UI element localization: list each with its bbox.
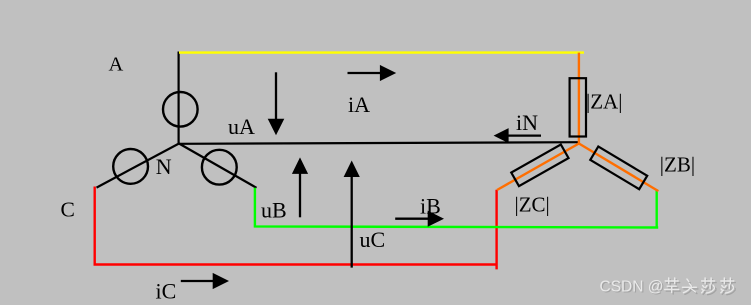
svg-text:|ZA|: |ZA| [586,90,622,114]
wire: orange diagonal to ZC [497,144,579,191]
svg-text:A: A [109,54,124,76]
arrow iB (right) [395,218,429,220]
svg-text:uA: uA [228,114,255,139]
source VC circle [113,149,148,184]
svg-text:iA: iA [348,92,370,117]
wire: source phase A vertical [178,52,180,144]
svg-text:C: C [61,197,75,221]
svg-text:uC: uC [360,227,386,252]
svg-text:iB: iB [420,194,441,219]
arrow iA (right) [348,72,382,74]
impedance ZA box [570,78,586,136]
watermark CSDN [600,279,665,297]
arrow uB (up) [299,173,301,217]
wire: red phase C [95,187,498,270]
impedance ZC box [511,144,568,186]
arrow uA (down) [275,72,277,119]
wire: source right diagonal (to B) [179,144,257,188]
svg-text:N: N [156,154,172,179]
impedance ZB box [590,147,647,190]
svg-text:CSDN @: CSDN @ [600,279,664,296]
wire: yellow phase A line [179,51,584,53]
svg-text:|ZC|: |ZC| [515,193,550,217]
svg-text:uB: uB [261,198,287,223]
wire: source left diagonal (to C) [97,144,180,188]
svg-text:|ZB|: |ZB| [660,153,695,177]
wire: neutral line N to load [179,142,580,144]
watermark CJK glyphs (simplified) [665,278,736,295]
source VA circle [163,92,198,127]
wire: orange diagonal to ZB [579,144,659,192]
arrow uC (up) [351,176,353,268]
svg-text:iC: iC [156,279,177,304]
wire: green phase B [255,188,658,228]
svg-text:iN: iN [516,110,538,135]
arrow iN (left) [508,134,541,136]
source VB circle [202,150,237,185]
arrow iC (right) [181,280,214,282]
wire: orange drop from yellow to ZA [578,53,580,144]
